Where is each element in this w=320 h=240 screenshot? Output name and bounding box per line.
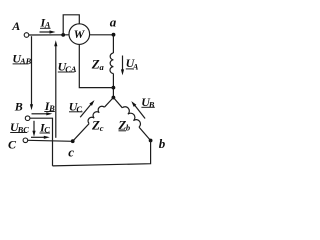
label I_B bbox=[44, 99, 55, 113]
inductor Za bbox=[110, 53, 113, 74]
svg-text:Z: Z bbox=[91, 56, 100, 71]
wire wattmeter to node a bbox=[90, 34, 114, 36]
wire B to corner bbox=[30, 118, 53, 166]
current arrow I_B bbox=[32, 112, 53, 115]
wire node a down to coil Za bbox=[112, 35, 114, 53]
junction of voltage-coil wire bbox=[112, 86, 116, 90]
label U_CA bbox=[58, 60, 77, 75]
voltage arrow U_B bbox=[131, 101, 145, 118]
star point node bbox=[112, 96, 116, 100]
svg-text:c: c bbox=[100, 123, 104, 133]
svg-text:b: b bbox=[126, 123, 130, 133]
wire C to node c bbox=[28, 140, 73, 141]
voltage arrow U_C bbox=[80, 100, 94, 117]
terminal B bbox=[25, 116, 30, 121]
node c bbox=[71, 139, 75, 143]
wattmeter voltage-coil wire bbox=[79, 44, 113, 87]
voltage arrow U_BC bbox=[32, 121, 35, 137]
inductor Zb bbox=[122, 107, 140, 127]
op-amp/meter W circle bbox=[69, 24, 90, 45]
label Zc bbox=[91, 118, 104, 133]
label Za bbox=[91, 56, 105, 72]
terminal A bbox=[24, 33, 29, 38]
label U_AB bbox=[12, 51, 31, 66]
wire star to coil Zc bbox=[104, 98, 113, 108]
svg-text:W: W bbox=[74, 27, 86, 41]
svg-text:CA: CA bbox=[65, 64, 77, 74]
node/junction on wire A bbox=[61, 33, 65, 37]
svg-text:C: C bbox=[76, 104, 82, 114]
node b bbox=[149, 139, 153, 143]
svg-text:AB: AB bbox=[19, 56, 32, 66]
label Zb bbox=[117, 117, 130, 132]
wattmeter current-coil loop bbox=[63, 15, 79, 35]
svg-text:B: B bbox=[14, 100, 23, 114]
current arrow I_A bbox=[40, 30, 56, 33]
label U_C bbox=[69, 99, 83, 114]
wire Za coil to star point bbox=[112, 74, 114, 98]
node a bbox=[112, 33, 116, 37]
label U_BC bbox=[10, 120, 29, 135]
wire star to coil Zb bbox=[113, 98, 122, 108]
inductor Zc bbox=[88, 106, 104, 123]
voltage arrow U_AB bbox=[30, 36, 33, 110]
terminal C bbox=[23, 138, 28, 143]
wire Zb to node b bbox=[139, 127, 151, 140]
svg-text:A: A bbox=[11, 19, 20, 33]
svg-text:Z: Z bbox=[91, 118, 100, 133]
label I_C bbox=[39, 120, 50, 134]
svg-text:c: c bbox=[68, 144, 74, 159]
voltage arrow U_CA bbox=[54, 40, 57, 138]
svg-text:a: a bbox=[110, 15, 117, 30]
label U_A bbox=[126, 56, 139, 71]
wire A from terminal to wattmeter bbox=[29, 34, 69, 36]
current arrow I_C bbox=[31, 136, 50, 139]
svg-text:b: b bbox=[159, 136, 166, 151]
wire node b down and along bottom bbox=[53, 141, 151, 166]
wire Zc to node c bbox=[73, 124, 89, 142]
label I_A bbox=[40, 16, 51, 30]
svg-text:BC: BC bbox=[17, 125, 30, 135]
svg-text:A: A bbox=[132, 62, 139, 72]
svg-text:B: B bbox=[148, 100, 155, 110]
svg-text:C: C bbox=[8, 137, 17, 151]
label U_B bbox=[141, 95, 155, 110]
voltage arrow U_A bbox=[121, 56, 124, 76]
